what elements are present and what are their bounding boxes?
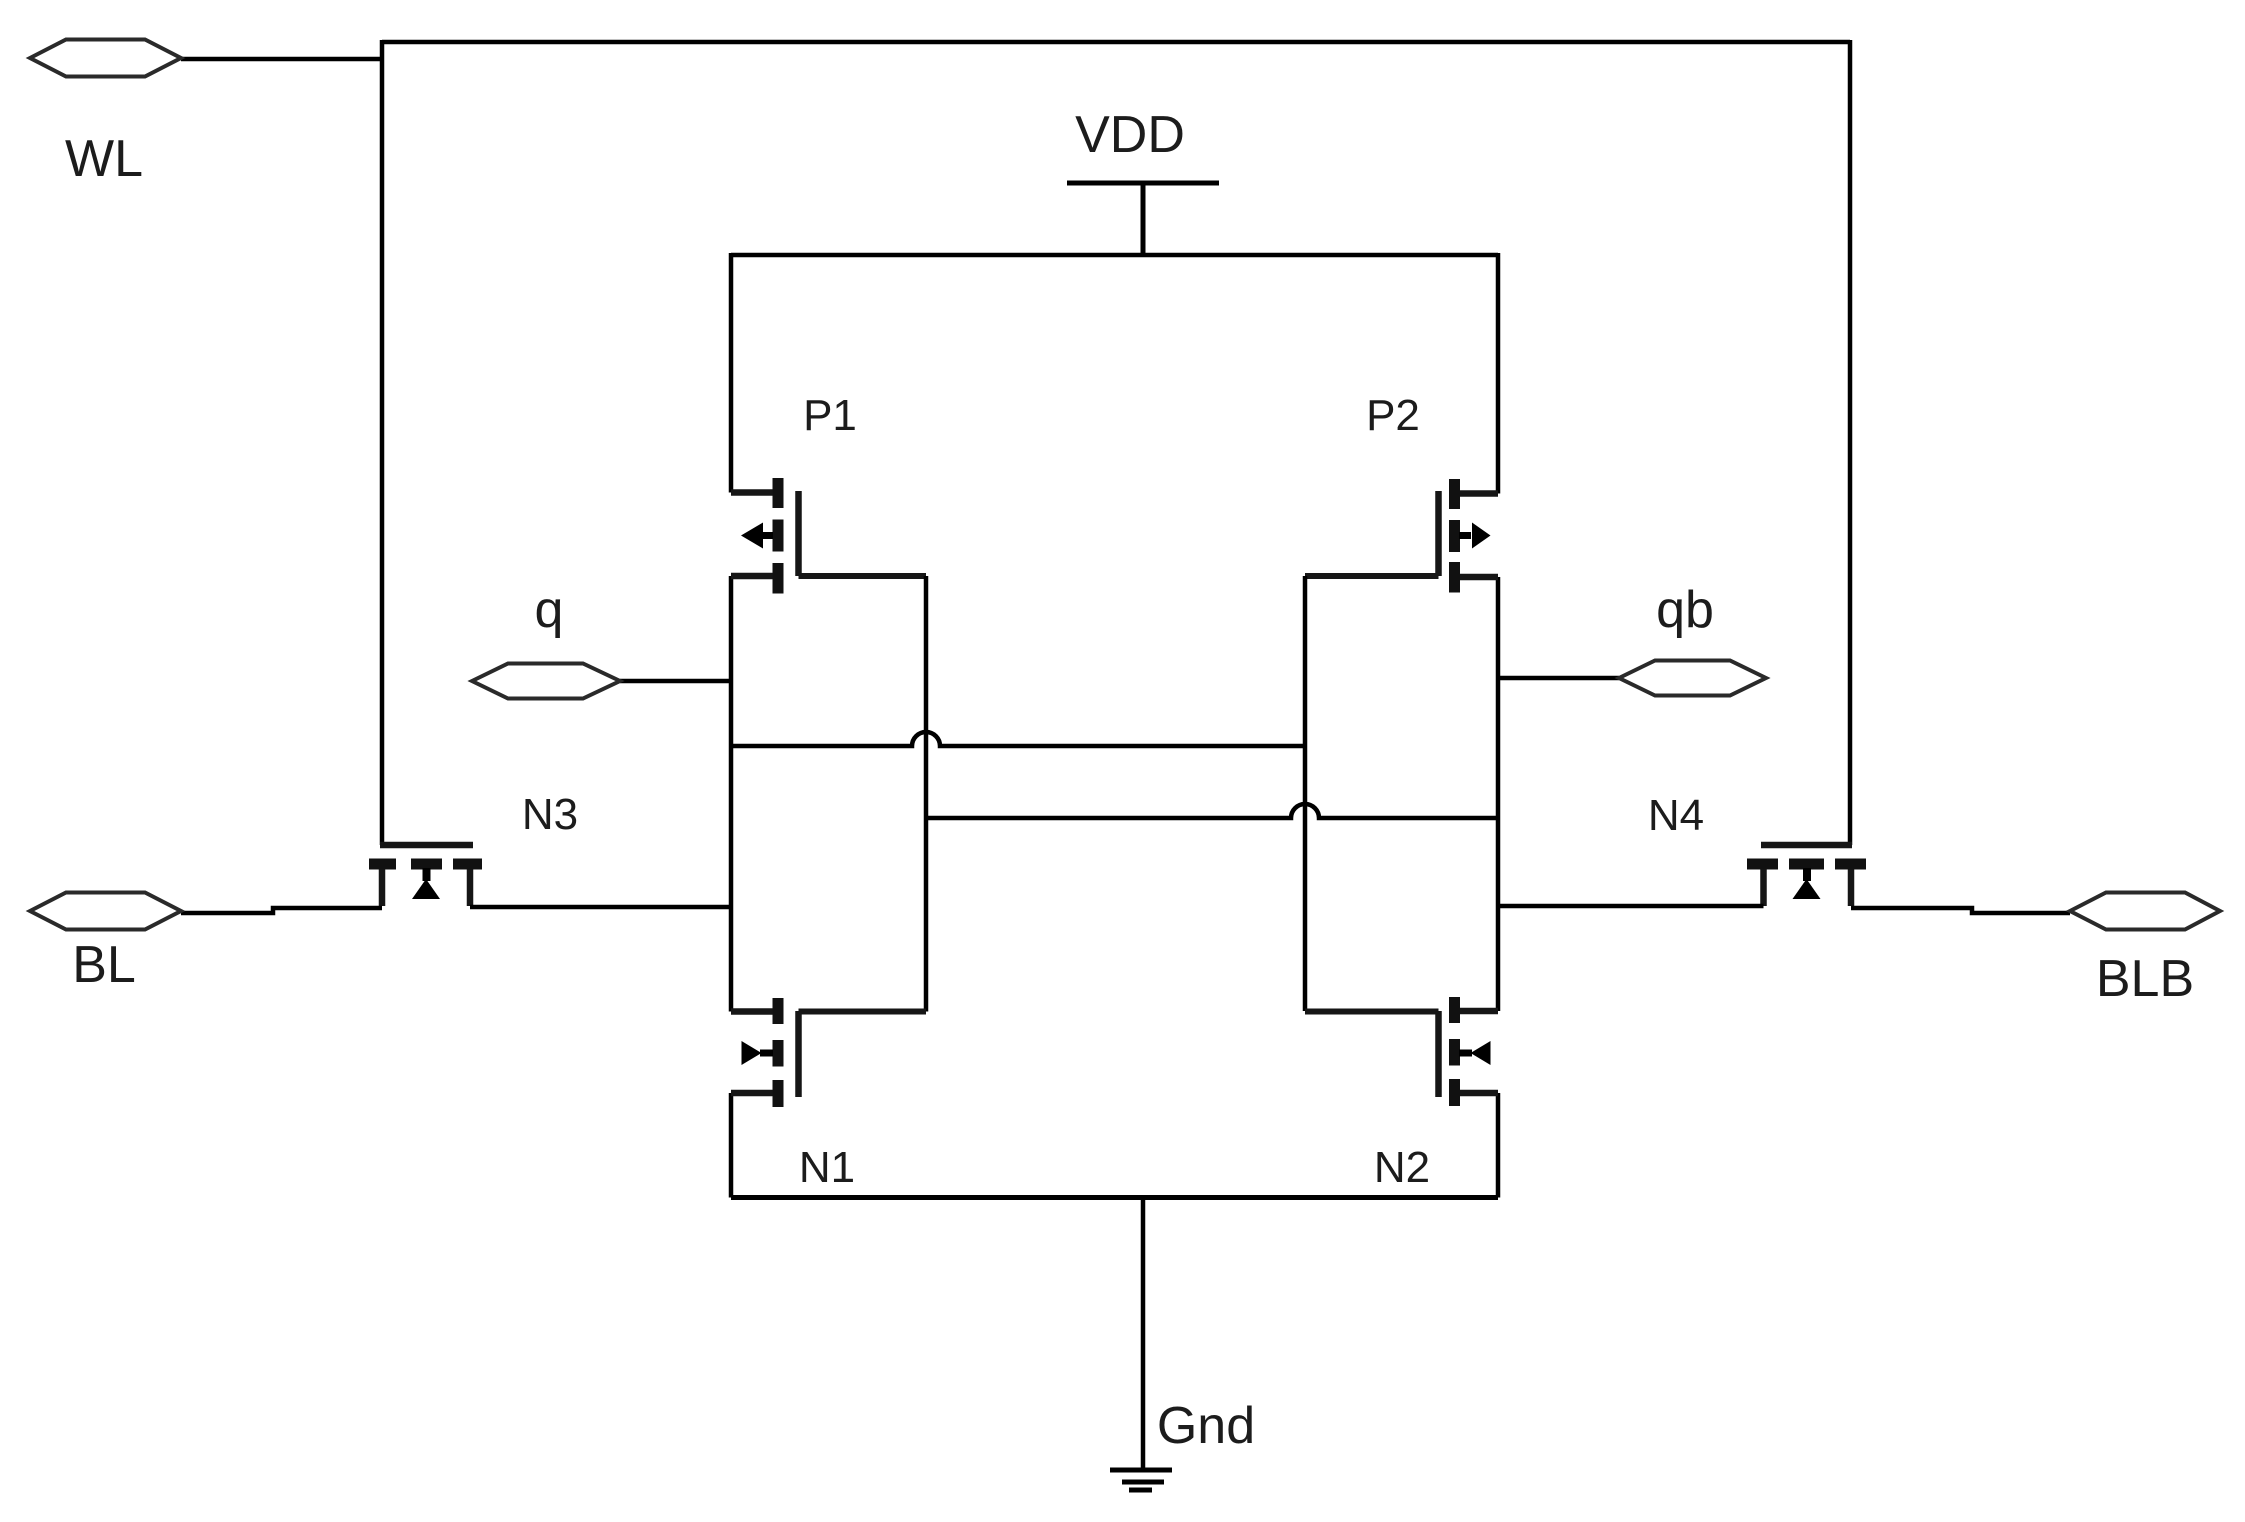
svg-text:qb: qb [1656,581,1714,639]
transistor N3 [369,845,482,906]
wire cross-couple left gates to qb (hop over right column) [926,804,1498,818]
wire BL to N3 source [181,908,382,913]
ground [1110,1470,1172,1490]
wire N4 drain to BLB [1851,908,2070,913]
transistor N1 [731,998,799,1107]
svg-text:P2: P2 [1366,391,1420,440]
svg-text:BLB: BLB [2096,950,2194,1008]
port qb [1619,661,1766,696]
wire P2 gate lead [1305,573,1439,579]
wire left WL drop to N3 gate [380,40,385,845]
node q (inner box left edge) [729,253,734,1198]
wire N3 drain to node q [470,905,731,910]
svg-text:N1: N1 [799,1143,855,1192]
wire top WL rail [382,40,1850,45]
port BLB [2070,893,2220,930]
wire right WL drop to N4 gate [1848,40,1853,845]
port WL [30,40,181,77]
wire left gate column (P1/N1 gates) [924,576,929,1012]
transistor P2 [1439,479,1499,593]
wire P1 gate lead [799,573,927,579]
transistor N2 [1439,997,1499,1106]
port BL [30,893,181,930]
node qb (inner box right edge) [1496,253,1501,1198]
svg-text:N2: N2 [1374,1143,1430,1192]
svg-text:WL: WL [65,130,143,188]
wire Gnd stem [1141,1198,1146,1471]
transistor N4 [1747,845,1866,906]
svg-text:VDD: VDD [1075,106,1185,164]
wire Gnd rail (inner box bottom) [731,1195,1498,1200]
svg-text:BL: BL [72,936,136,994]
port q [472,664,620,699]
svg-text:q: q [535,581,564,639]
wire cross-couple q to right gates (hop over left column) [731,732,1305,746]
wire q pin lead [620,679,731,684]
svg-text:N3: N3 [522,790,578,839]
wire right gate column (P2/N2 gates) [1303,576,1308,1011]
transistor P1 [731,478,799,594]
wire N2 gate lead [1305,1009,1439,1015]
wire qb pin lead [1498,676,1619,681]
wire N1 gate lead [799,1009,927,1015]
wire node qb to N4 source [1498,904,1764,909]
power VDD symbol [1067,183,1219,255]
svg-text:P1: P1 [803,391,857,440]
svg-text:N4: N4 [1648,791,1704,840]
wire WL pin lead [181,57,382,62]
wire VDD rail (inner box top) [731,253,1498,258]
svg-text:Gnd: Gnd [1157,1397,1255,1455]
